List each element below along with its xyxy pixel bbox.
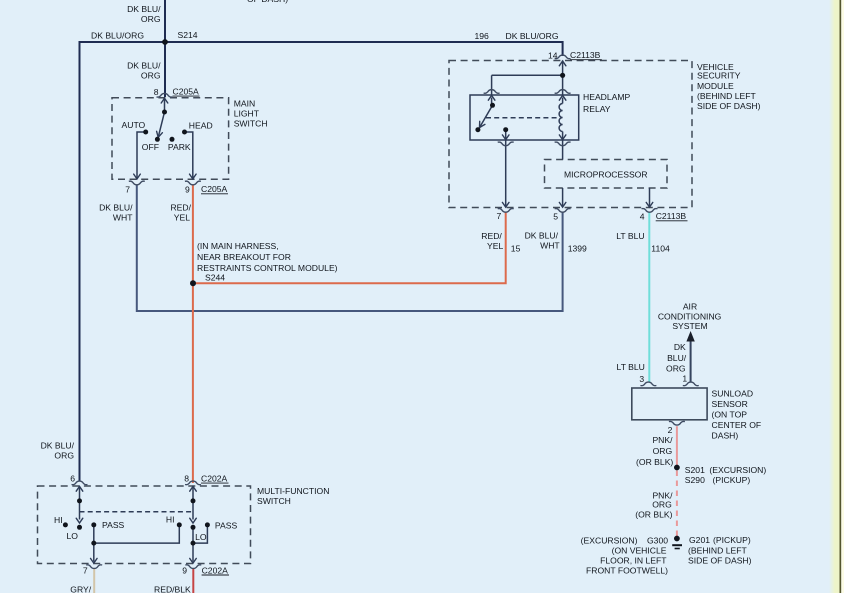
svg-text:DK: DK xyxy=(674,342,686,352)
svg-text:9: 9 xyxy=(185,185,190,195)
svg-text:SYSTEM: SYSTEM xyxy=(672,321,707,331)
svg-text:14: 14 xyxy=(548,50,558,60)
svg-text:WHT: WHT xyxy=(113,212,133,222)
svg-text:PARK: PARK xyxy=(168,142,191,152)
svg-text:(OR BLK): (OR BLK) xyxy=(636,457,673,467)
svg-text:3: 3 xyxy=(639,374,644,384)
svg-text:GRY/: GRY/ xyxy=(70,584,91,593)
svg-text:HEADLAMP: HEADLAMP xyxy=(583,92,631,102)
svg-text:RED/: RED/ xyxy=(481,231,502,241)
svg-text:(ON VEHICLE: (ON VEHICLE xyxy=(612,545,667,555)
svg-text:8: 8 xyxy=(154,87,159,97)
svg-text:RESTRAINTS CONTROL MODULE): RESTRAINTS CONTROL MODULE) xyxy=(197,263,338,273)
svg-text:PASS: PASS xyxy=(102,520,125,530)
svg-text:HI: HI xyxy=(166,515,175,525)
svg-text:C202A: C202A xyxy=(201,473,228,483)
svg-text:ORG: ORG xyxy=(653,446,673,456)
svg-text:DK BLU/ORG: DK BLU/ORG xyxy=(506,31,559,41)
svg-text:S201: S201 xyxy=(685,465,705,475)
svg-text:1104: 1104 xyxy=(651,243,670,253)
svg-text:LT BLU: LT BLU xyxy=(616,231,644,241)
svg-text:DK BLU/: DK BLU/ xyxy=(127,61,161,71)
svg-text:7: 7 xyxy=(497,211,502,221)
svg-text:ORG: ORG xyxy=(54,451,74,461)
svg-text:S290: S290 xyxy=(685,475,705,485)
svg-text:(EXCURSION): (EXCURSION) xyxy=(709,465,766,475)
svg-text:SUNLOAD: SUNLOAD xyxy=(712,389,754,399)
svg-text:PNK/: PNK/ xyxy=(652,435,673,445)
svg-text:(PICKUP): (PICKUP) xyxy=(713,475,751,485)
svg-text:OF DASH): OF DASH) xyxy=(247,0,288,4)
svg-text:CENTER OF: CENTER OF xyxy=(712,420,762,430)
svg-text:S244: S244 xyxy=(205,273,225,283)
svg-text:(OR BLK): (OR BLK) xyxy=(635,509,672,519)
svg-text:8: 8 xyxy=(184,474,189,484)
svg-text:7: 7 xyxy=(83,565,88,575)
svg-text:196: 196 xyxy=(475,31,490,41)
svg-text:CONDITIONING: CONDITIONING xyxy=(658,311,722,321)
svg-text:SWITCH: SWITCH xyxy=(257,496,291,506)
svg-text:YEL: YEL xyxy=(174,212,190,222)
svg-text:4: 4 xyxy=(640,212,645,222)
svg-text:FRONT FOOTWELL): FRONT FOOTWELL) xyxy=(586,565,668,575)
svg-text:LT BLU: LT BLU xyxy=(617,362,645,372)
svg-text:HI: HI xyxy=(54,515,63,525)
svg-text:MODULE: MODULE xyxy=(697,81,734,91)
svg-text:6: 6 xyxy=(70,474,75,484)
svg-text:ORG: ORG xyxy=(666,363,686,373)
svg-text:DASH): DASH) xyxy=(712,431,739,441)
svg-text:DK BLU/: DK BLU/ xyxy=(525,231,559,241)
svg-text:C202A: C202A xyxy=(202,565,229,575)
svg-text:RELAY: RELAY xyxy=(583,104,611,114)
svg-text:(BEHIND LEFT: (BEHIND LEFT xyxy=(688,545,747,555)
svg-text:DK BLU/: DK BLU/ xyxy=(99,202,133,212)
svg-text:MAIN: MAIN xyxy=(234,98,255,108)
svg-text:DK BLU/: DK BLU/ xyxy=(41,441,75,451)
svg-text:G300: G300 xyxy=(647,535,668,545)
svg-text:(IN MAIN HARNESS,: (IN MAIN HARNESS, xyxy=(197,241,279,251)
svg-text:C205A: C205A xyxy=(201,184,228,194)
svg-text:DK BLU/ORG: DK BLU/ORG xyxy=(91,31,144,41)
svg-text:15: 15 xyxy=(511,243,521,253)
svg-text:BLU/: BLU/ xyxy=(667,353,687,363)
svg-text:MULTI-FUNCTION: MULTI-FUNCTION xyxy=(257,486,329,496)
svg-text:5: 5 xyxy=(553,212,558,222)
svg-text:YEL: YEL xyxy=(487,241,503,251)
svg-text:DK BLU/: DK BLU/ xyxy=(127,4,161,14)
svg-text:LIGHT: LIGHT xyxy=(234,109,260,119)
svg-text:(ON TOP: (ON TOP xyxy=(712,410,748,420)
svg-text:PASS: PASS xyxy=(215,521,238,531)
svg-text:(BEHIND LEFT: (BEHIND LEFT xyxy=(697,91,756,101)
svg-text:OFF: OFF xyxy=(142,142,159,152)
svg-text:AUTO: AUTO xyxy=(122,120,146,130)
svg-text:(EXCURSION): (EXCURSION) xyxy=(581,535,638,545)
svg-text:C205A: C205A xyxy=(173,86,200,96)
svg-text:2: 2 xyxy=(668,425,673,435)
svg-text:LO: LO xyxy=(67,531,79,541)
svg-text:RED/BLK: RED/BLK xyxy=(154,584,191,593)
svg-text:1399: 1399 xyxy=(568,243,587,253)
svg-text:SIDE OF DASH): SIDE OF DASH) xyxy=(697,101,761,111)
svg-text:ORG: ORG xyxy=(141,14,161,24)
svg-text:ORG: ORG xyxy=(141,71,161,81)
svg-text:LO: LO xyxy=(195,532,207,542)
svg-text:9: 9 xyxy=(182,566,187,576)
svg-text:ORG: ORG xyxy=(652,500,672,510)
svg-text:SIDE OF DASH): SIDE OF DASH) xyxy=(688,555,752,565)
svg-text:S214: S214 xyxy=(178,30,198,40)
svg-text:(PICKUP): (PICKUP) xyxy=(713,535,751,545)
svg-text:1: 1 xyxy=(682,373,687,383)
svg-text:C2113B: C2113B xyxy=(656,211,687,221)
svg-text:7: 7 xyxy=(125,185,130,195)
svg-text:HEAD: HEAD xyxy=(189,121,213,131)
svg-text:G201: G201 xyxy=(689,535,710,545)
svg-text:SECURITY: SECURITY xyxy=(697,71,741,81)
svg-text:FLOOR, IN LEFT: FLOOR, IN LEFT xyxy=(600,555,667,565)
svg-text:SWITCH: SWITCH xyxy=(234,119,268,129)
svg-text:MICROPROCESSOR: MICROPROCESSOR xyxy=(564,169,648,179)
svg-text:C2113B: C2113B xyxy=(570,50,601,60)
svg-text:NEAR BREAKOUT FOR: NEAR BREAKOUT FOR xyxy=(197,252,291,262)
svg-text:RED/: RED/ xyxy=(170,202,191,212)
svg-text:WHT: WHT xyxy=(540,241,560,251)
svg-text:AIR: AIR xyxy=(683,302,697,312)
svg-text:SENSOR: SENSOR xyxy=(712,399,748,409)
